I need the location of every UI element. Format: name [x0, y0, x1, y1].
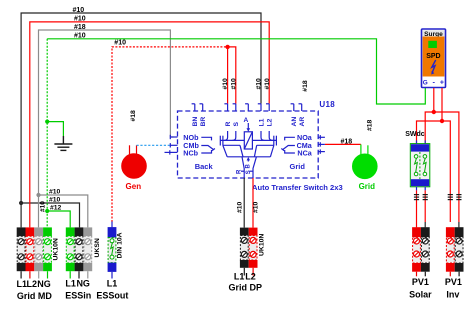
wire L2 red Grid MD to ATS L2 [30, 22, 269, 228]
svg-text:UK10N: UK10N [259, 234, 266, 256]
wire Gen stub right [136, 145, 138, 155]
wire grey branch to ESSin NG [39, 195, 88, 227]
svg-text:L2: L2 [267, 118, 274, 126]
svg-text:AR: AR [299, 117, 306, 127]
wire green branch #12 to ESSin L1 [47, 211, 70, 227]
svg-text:BN: BN [192, 117, 199, 127]
node green junction [45, 209, 49, 213]
svg-text:NG: NG [76, 279, 90, 289]
svg-text:Gen: Gen [126, 182, 142, 191]
ATS right pins NOa CMa NCa [318, 135, 325, 154]
svg-text:BR: BR [200, 117, 207, 127]
ATS left pins NOb CMb NCb [165, 135, 178, 155]
svg-text:#10: #10 [237, 201, 244, 213]
wire cyan dashed Gen to CMb [137, 144, 171, 146]
wire black stub PV1 Solar minus [424, 222, 426, 227]
svg-text:#18: #18 [302, 80, 309, 92]
terminal block Grid MD column L1 black [17, 227, 26, 278]
wire blue stub at ESSout top [111, 222, 113, 228]
svg-text:#10: #10 [222, 78, 229, 90]
svg-text:#18: #18 [74, 24, 86, 31]
relay transfer mechanism symbol [220, 123, 276, 171]
wire black branch to ESSin [21, 203, 79, 227]
node green junction [45, 120, 49, 124]
svg-text:L2: L2 [245, 271, 256, 281]
svg-text:L1: L1 [17, 279, 28, 289]
op box ATS dashed outline U18 [178, 111, 319, 178]
SPD status window [428, 41, 437, 48]
terminal block ESSin column grey [83, 227, 92, 278]
svg-text:ESSin: ESSin [65, 290, 91, 300]
svg-text:R: R [225, 122, 232, 127]
ferrule marks [414, 195, 462, 200]
svg-text:#10: #10 [73, 7, 85, 14]
svg-text:ESSout: ESSout [96, 290, 128, 300]
svg-text:#10: #10 [49, 196, 61, 203]
svg-text:#18: #18 [366, 119, 373, 131]
ATS top pins [192, 104, 302, 111]
left contact plates [220, 139, 244, 141]
svg-text:Auto Transfer Switch 2x3: Auto Transfer Switch 2x3 [252, 183, 343, 192]
svg-text:#10: #10 [253, 201, 260, 213]
fuse holder ESSout DIN 10A [108, 227, 117, 278]
wire L1 black Grid MD to ATS L1 [21, 13, 261, 227]
wire black ATS B to Grid DP L1 [243, 178, 245, 228]
terminal block PV1 Solar column minus black [421, 227, 430, 276]
wire green branch to ground symbol [47, 122, 63, 136]
svg-text:S: S [233, 122, 240, 127]
svg-text:L1: L1 [107, 279, 118, 289]
wire black stub PV1 Inv minus [458, 222, 460, 227]
svg-text:UKSN: UKSN [94, 238, 101, 257]
terminal block Grid MD column L2 red [26, 227, 35, 278]
svg-text:AN: AN [291, 117, 298, 127]
svg-text:#10: #10 [256, 78, 263, 90]
ground [54, 136, 72, 150]
svg-text:#10: #10 [230, 78, 237, 90]
svg-text:#18: #18 [130, 110, 137, 122]
svg-text:Grid MD: Grid MD [17, 291, 52, 301]
contact hook L2 [269, 131, 272, 140]
ATS bottom pins [241, 171, 253, 178]
svg-text:Grid: Grid [359, 182, 376, 191]
contact hook S [233, 131, 236, 140]
indicator arrow B [247, 159, 249, 162]
surge protector SPD box [422, 29, 446, 88]
wire red plus rail [417, 121, 451, 222]
svg-text:G: G [423, 79, 428, 86]
wire Gen stub left [129, 145, 131, 155]
wire NG grey Grid MD to ATS NOb [39, 30, 174, 227]
wire red to S pin [228, 47, 236, 104]
terminal block Grid DP column L2 red [249, 228, 258, 276]
wire Grid stub left [360, 144, 362, 155]
node red junction minus [432, 110, 436, 114]
generator Gen circle [122, 154, 147, 179]
wire red ATS S to Grid DP L2 [252, 178, 254, 228]
SPD lightning bolt [432, 60, 436, 73]
svg-text:L1: L1 [65, 279, 76, 289]
svg-text:UK10N: UK10N [53, 238, 60, 260]
actuator rectangle [244, 132, 252, 149]
svg-text:L2: L2 [27, 279, 38, 289]
terminal block ESSin column L1 green [66, 227, 75, 278]
svg-text:#10: #10 [264, 78, 271, 90]
terminal block Grid MD column G green [43, 227, 52, 278]
contact hook L1 [261, 131, 264, 140]
svg-text:Back: Back [195, 162, 214, 171]
svg-text:#18: #18 [341, 139, 353, 146]
terminal block Grid DP column L1 black [240, 228, 249, 276]
wire red CMa to Grid circle [325, 143, 361, 145]
svg-text:SWdc: SWdc [405, 131, 425, 138]
svg-text:+: + [440, 79, 444, 86]
svg-text:#10: #10 [74, 15, 86, 22]
node red junction [225, 45, 229, 49]
svg-text:B: B [246, 164, 252, 169]
svg-text:SPD: SPD [426, 53, 440, 60]
svg-text:PV1: PV1 [412, 277, 429, 287]
svg-text:Inv: Inv [446, 289, 459, 299]
terminal block PV1 Solar column plus red [412, 227, 421, 276]
wire green ground net vertical (dashed) [46, 39, 48, 228]
svg-text:L1: L1 [258, 118, 265, 126]
svg-text:Grid: Grid [290, 162, 306, 171]
svg-text:PV1: PV1 [445, 277, 462, 287]
node black junction [19, 201, 23, 205]
wire green ground net to SPD G [47, 39, 425, 104]
svg-text:NCa: NCa [297, 148, 312, 157]
svg-text:Solar: Solar [409, 289, 432, 299]
terminal block PV1 Inv column plus red [446, 227, 455, 276]
svg-text:#10: #10 [74, 32, 86, 39]
switch SPDT a-side symbol [281, 137, 295, 153]
svg-text:DIN 10A: DIN 10A [116, 232, 123, 258]
funnel to output pins [242, 157, 244, 171]
svg-text:U18: U18 [319, 100, 335, 109]
svg-text:L1: L1 [234, 271, 245, 281]
funnel converge [227, 156, 270, 158]
wire red SWdc to PV1 Solar plus [416, 190, 418, 227]
wire red SPD plus down [441, 88, 443, 121]
terminal block ESSin column NG black [75, 227, 84, 278]
wire red SPD minus down [433, 88, 435, 112]
svg-text:NCb: NCb [183, 149, 198, 158]
wire red minus rail [425, 112, 459, 222]
svg-text:#10: #10 [49, 188, 61, 195]
wire red dashed ESSout to ATS R/S [112, 47, 228, 222]
right contact plates [252, 139, 276, 141]
wire red to R pin [227, 47, 229, 104]
switch SWdc dc disconnect [410, 140, 430, 190]
svg-text:#10: #10 [114, 39, 126, 46]
switch SPDT b-side symbol [201, 137, 215, 153]
wire Grid stub right [367, 145, 369, 155]
actuator arrow from A [247, 123, 249, 129]
svg-text:#12: #12 [50, 204, 62, 211]
node red junction plus [440, 119, 444, 123]
node grey junction [36, 193, 40, 197]
grid source circle [353, 154, 378, 179]
terminal block PV1 Inv column minus black [455, 227, 464, 276]
svg-text:NG: NG [37, 279, 51, 289]
contact hook R [224, 131, 227, 140]
terminal block Grid MD column N grey [34, 227, 43, 278]
wire red SWdc to PV1 Solar minus [424, 190, 426, 222]
svg-text:Grid DP: Grid DP [229, 283, 263, 293]
